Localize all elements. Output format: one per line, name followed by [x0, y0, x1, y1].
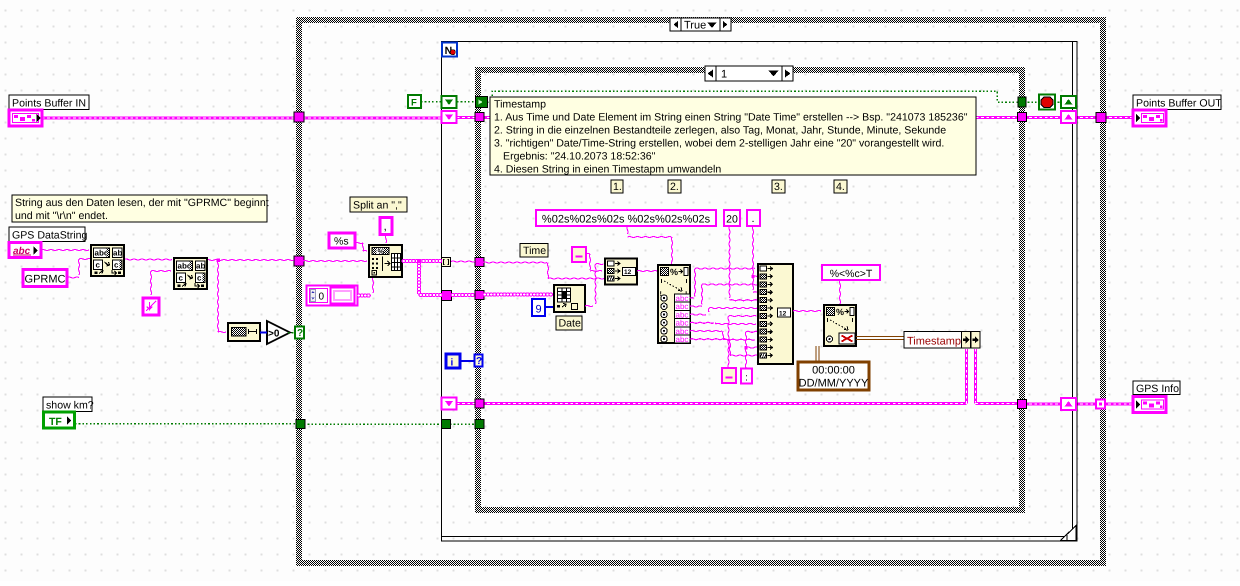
wire: constant dot to concat r2 and r4 — [751, 226, 757, 292]
label GPS DataString — [9, 227, 87, 242]
svg-text:2. String in die einzelnen Bes: 2. String in die einzelnen Bestandteile … — [494, 125, 946, 137]
svg-text:?: ? — [476, 356, 482, 367]
wire: default timestamp up into node — [816, 346, 819, 362]
empty string array constant — [307, 286, 358, 306]
wire: case tunnel to loop shift register (points buffer) — [303, 116, 441, 119]
constant space (top) — [572, 247, 586, 262]
svg-text:?: ? — [297, 328, 303, 339]
tunnel: gps string into case (left) — [294, 256, 304, 266]
wire: boolean across inner case top to stop terminal — [487, 91, 1019, 102]
svg-text:1.: 1. — [613, 181, 622, 193]
tunnel: points buffer out of case (right) — [1096, 113, 1106, 123]
constant format string %02s — [536, 210, 716, 226]
match pattern 1 — [91, 245, 124, 276]
wire: points buffer across inner case (behind comment) — [482, 116, 1019, 119]
wire: date string to concat r1 — [585, 263, 604, 306]
wire: 9 to index array — [545, 306, 554, 308]
constant %<%c>T — [822, 265, 880, 280]
label 4. — [834, 180, 847, 193]
constant %s — [329, 233, 355, 248]
wire: concat out to scan timestamp node — [793, 310, 821, 311]
shift register right pink (points buffer) — [1061, 111, 1076, 123]
for loop corner fold — [1061, 526, 1077, 541]
comment Timestamp block — [490, 97, 976, 176]
svg-text:Timestamp: Timestamp — [494, 99, 546, 111]
wire: boolean loop tunnel to inner case tunnel — [450, 423, 477, 425]
wire: EOL constant to match2 — [150, 270, 171, 295]
svg-text:%: % — [378, 247, 385, 256]
inner case tunnel: string element — [475, 258, 484, 267]
wire: format string to scan node — [627, 226, 673, 265]
constant default timestamp 00:00:00 DD/MM/YYYY — [798, 362, 869, 390]
concatenate strings (12 input) — [758, 264, 793, 364]
tunnel: points buffer into case (left) — [294, 112, 304, 122]
wire: concat out to scan node — [637, 270, 657, 271]
for loop count terminal N (conditional) — [442, 43, 457, 58]
wire: format to scan timestamp — [839, 280, 840, 304]
inner case tunnel: points buffer — [475, 113, 484, 122]
wire: gps shift register to inner case tunnel — [457, 402, 477, 405]
wire: %s into node — [355, 242, 367, 251]
wire: bundle input drop — [965, 349, 968, 404]
svg-text:True: True — [684, 20, 706, 32]
svg-text:ab: ab — [113, 249, 122, 258]
svg-text:Split an ",": Split an "," — [353, 200, 402, 212]
wire: string into spreadsheet-to-array node — [303, 260, 367, 261]
constant space (bottom) — [722, 368, 736, 383]
shift register left pink (gps info) — [442, 398, 457, 410]
constant colon — [741, 369, 752, 384]
concatenate strings (3 input) — [605, 259, 637, 285]
inner case selector terminal ? (blue) — [475, 355, 483, 368]
shift register left green — [442, 96, 457, 108]
svg-text:3.: 3. — [774, 181, 783, 193]
case structure True: border — [296, 17, 1106, 566]
string length node — [228, 323, 260, 341]
for loop border (stacked frames) — [442, 42, 1078, 542]
svg-text:2.: 2. — [670, 181, 679, 193]
inner case right tunnel: gps info — [1018, 400, 1027, 409]
constant 9 (blue) — [532, 299, 545, 316]
wire: F constant to loop shift register — [421, 101, 442, 103]
svg-text:1: 1 — [721, 69, 727, 81]
svg-text:c: c — [179, 274, 184, 283]
for loop iteration terminal i — [446, 354, 460, 369]
wire: >0 to selector — [288, 332, 295, 334]
bundle by name Timestamp — [904, 332, 980, 349]
wire: green shift register to inner case linked tunnel — [457, 101, 477, 103]
constant comma — [380, 218, 392, 235]
svg-text:Date: Date — [559, 318, 581, 330]
stop terminal (conditional) — [1039, 95, 1055, 110]
wire: colon to concat r9 and r11 — [744, 331, 758, 368]
svg-text:12: 12 — [624, 269, 632, 276]
svg-text:DD/MM/YYYY: DD/MM/YYYY — [799, 378, 869, 390]
svg-text:4.: 4. — [836, 181, 845, 193]
wire: abc to match pattern 1 — [41, 249, 89, 250]
svg-text:GPS DataString: GPS DataString — [12, 229, 87, 241]
end of line constant — [143, 298, 159, 315]
wires: scan outputs to concatenate rows — [690, 268, 758, 356]
wire: inner tunnel to right shift register — [1024, 116, 1062, 119]
tunnel: boolean into case (left) — [296, 420, 305, 429]
terminal Points Buffer OUT — [1133, 110, 1166, 126]
wire: show km? boolean to case — [75, 423, 297, 425]
svg-text:c: c — [197, 274, 202, 283]
constant F — [408, 95, 421, 109]
svg-text:.: . — [751, 213, 754, 225]
wire: outer tunnel to GPS Info — [1103, 402, 1133, 405]
inner case tunnel: gps info cluster — [475, 399, 484, 408]
wire: node output string array — [402, 259, 442, 262]
svg-text:Ergebnis: "24.10.2073 18:52:36: Ergebnis: "24.10.2073 18:52:36" — [503, 151, 656, 163]
comment: String aus den Daten lesen — [12, 195, 269, 222]
wire: match2 output to case tunnel — [206, 259, 294, 260]
auto-index tunnel [] on loop — [442, 258, 451, 267]
label Points Buffer IN — [9, 95, 89, 110]
wire: space to concat r2 — [586, 253, 602, 271]
svg-text:%: % — [836, 307, 844, 317]
tunnel: string array into loop — [442, 291, 452, 301]
label GPS Info — [1133, 381, 1180, 395]
svg-text:F: F — [411, 98, 417, 109]
shift register right pink (gps info) — [1061, 398, 1076, 410]
svg-text:%s: %s — [334, 236, 349, 248]
wire: array into index array — [483, 293, 552, 296]
svg-text:GPRMC: GPRMC — [25, 274, 66, 286]
label Points Buffer OUT — [1133, 95, 1222, 110]
scan from string node (6 outputs) — [658, 265, 690, 344]
wire: outer tunnel to Points Buffer OUT — [1104, 116, 1133, 119]
terminal GPS Info — [1133, 397, 1166, 413]
wire: inner tunnel to loop shift register bottom — [1024, 402, 1062, 405]
svg-text:12: 12 — [779, 310, 787, 317]
label Date — [556, 316, 582, 330]
case selector terminal ? — [295, 327, 304, 340]
tunnel: boolean into loop — [442, 420, 451, 429]
svg-text:1. Aus Time und Date Element i: 1. Aus Time und Date Element im String e… — [494, 112, 968, 124]
tunnel: gps info out of case (right, hollow) — [1096, 400, 1105, 409]
wire: Points Buffer IN to case — [42, 116, 296, 119]
inner case tunnel: boolean — [475, 420, 484, 429]
svg-text:4. Diesen String in einen Time: 4. Diesen String in einen Timestapm umwa… — [494, 164, 721, 176]
svg-text:ab: ab — [196, 262, 205, 271]
wire: array branch down to loop tunnel — [417, 259, 442, 296]
wire: stop to green shift register right — [1054, 101, 1062, 103]
svg-text:%: % — [670, 267, 678, 277]
wire: loop to outer case tunnel bottom — [1075, 402, 1098, 405]
wire: timestamp to bundle — [856, 337, 904, 340]
wire: array constant to node (array type) — [357, 277, 374, 297]
wire: array between loop tunnel and inner case — [451, 293, 474, 296]
wire: comma into node — [385, 235, 386, 243]
wire: shift register to inner case tunnel top — [457, 116, 477, 119]
inner case structure border — [475, 67, 1025, 513]
wire: boolean across case to loop — [304, 423, 442, 425]
label 3. — [772, 180, 785, 193]
wire: strlen to >0 (int blue) — [260, 332, 267, 334]
constant dot — [747, 210, 760, 226]
svg-text:>0: >0 — [268, 329, 280, 340]
svg-text:show km?: show km? — [46, 399, 94, 411]
outer case selector label "True" — [670, 18, 731, 32]
inner case tunnel: string array — [475, 291, 484, 300]
svg-text:String aus den Daten lesen, de: String aus den Daten lesen, der mit "GPR… — [15, 197, 269, 209]
svg-text:20: 20 — [726, 214, 738, 226]
greater than zero node — [267, 321, 290, 344]
wire: branch to string length — [216, 258, 226, 332]
svg-text:9: 9 — [535, 304, 541, 316]
svg-text:c: c — [96, 261, 101, 270]
inner case linked boolean tunnel — [476, 97, 488, 108]
terminal show km? (TF boolean) — [44, 412, 75, 428]
svg-text:Points Buffer IN: Points Buffer IN — [12, 97, 86, 109]
label show km? — [43, 397, 94, 412]
svg-text:Timestamp: Timestamp — [907, 336, 961, 348]
svg-text:,: , — [384, 219, 387, 233]
svg-text:und mit "\r\n" endet.: und mit "\r\n" endet. — [15, 210, 108, 222]
spreadsheet string to array node — [369, 245, 402, 277]
svg-text:i: i — [451, 358, 454, 369]
svg-text:Time: Time — [523, 245, 546, 257]
wire: bundle output to inner case right tunnel — [976, 402, 1020, 405]
svg-text:3. "richtigen" Date/Time-Strin: 3. "richtigen" Date/Time-String erstelle… — [494, 138, 944, 150]
inner case selector label "1" — [705, 66, 793, 81]
shift register left pink (points buffer) — [442, 111, 457, 123]
terminal Points Buffer IN (cluster array control) — [9, 110, 42, 126]
inner case right tunnel: points buffer — [1018, 113, 1027, 122]
terminal GPS DataString (string control abc) — [9, 243, 41, 258]
svg-text:GPS Info: GPS Info — [1136, 383, 1179, 395]
svg-text:c: c — [114, 261, 119, 270]
label 1. — [611, 180, 623, 193]
svg-text::: : — [745, 373, 748, 384]
wire: GPS info cluster bottom, inner case to bundle — [482, 402, 967, 405]
wire: indexed element into inner case — [451, 261, 475, 262]
constant GPRMC — [23, 270, 67, 287]
svg-text:%<%c>T: %<%c>T — [830, 268, 873, 280]
svg-text:%02s%02s%02s %02s%02s%02s: %02s%02s%02s %02s%02s%02s — [542, 214, 711, 226]
wire: i to inner case selector — [460, 360, 477, 362]
wire: space bottom to concat r7 — [728, 315, 757, 368]
wire: constant 20 to concat r5 — [729, 226, 758, 301]
wire: bundle output drop — [974, 349, 977, 404]
shift register right green — [1061, 96, 1076, 108]
wire: GPRMC to match pattern 1 — [67, 258, 91, 278]
wire: loop to outer case right tunnel — [1075, 116, 1098, 119]
scan from string (timestamp) node — [824, 305, 856, 346]
svg-text:00:00:00: 00:00:00 — [812, 365, 855, 377]
svg-text:Points Buffer OUT: Points Buffer OUT — [1136, 97, 1222, 109]
index array node — [554, 285, 585, 312]
svg-text:abc: abc — [676, 335, 689, 344]
match pattern 2 — [174, 258, 207, 289]
inner case right tunnel: boolean — [1018, 97, 1026, 107]
label Split an "," — [350, 197, 407, 212]
svg-text:TF: TF — [49, 416, 62, 428]
wire: match1 to match2 — [124, 259, 172, 260]
label Time — [520, 244, 548, 258]
constant 20 — [724, 210, 740, 226]
wire: time string to concat r3 — [483, 262, 604, 279]
svg-text:0: 0 — [319, 292, 325, 303]
label 2. — [668, 180, 681, 193]
